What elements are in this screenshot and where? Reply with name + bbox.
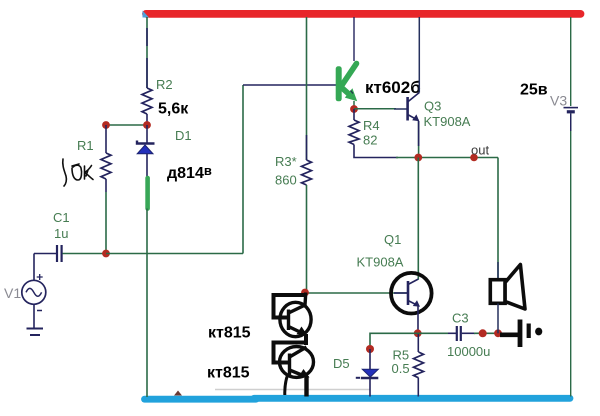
transistor VT1 marker collector stroke: [341, 64, 357, 87]
svg-text:KT908A: KT908A: [357, 255, 404, 270]
resistor R4 top lead: [353, 109, 355, 120]
resistor R2: [142, 88, 152, 114]
svg-text:25в: 25в: [520, 82, 548, 99]
handwritten value 10k: [63, 159, 93, 186]
speaker box: [490, 280, 505, 304]
svg-text:D5: D5: [333, 356, 350, 371]
node dot VT1 emitter / R4 / Q3 base: [350, 105, 358, 113]
zener diode D1 triangle: [137, 145, 153, 154]
plus mark: [37, 274, 43, 280]
transistor VB circle: [280, 347, 314, 378]
transistor VB collector: [290, 347, 307, 357]
capacitor C1 plates: [56, 245, 58, 262]
capacitor C1 left wire: [34, 253, 56, 255]
wire VA emitter to VB: [304, 334, 308, 345]
wire rail to R3: [306, 17, 308, 160]
wire Q3 emitter down: [418, 121, 420, 158]
Q1 collector diagonal: [408, 279, 418, 285]
svg-text:д814в: д814в: [167, 163, 212, 182]
battery V3 short plate: [567, 110, 575, 113]
zener diode D1 cathode bar: [137, 141, 155, 144]
diode D5 triangle: [362, 369, 378, 377]
svg-text:R2: R2: [156, 77, 173, 92]
wire D1 to ground rail: [146, 209, 148, 398]
svg-text:кт602б: кт602б: [365, 78, 421, 97]
hand-drawn ground bar 2: [527, 324, 531, 339]
svg-text:82: 82: [363, 133, 377, 148]
transistor VA emitter arrowhead: [297, 327, 308, 336]
wire C3 to speaker node: [474, 332, 498, 334]
ground rail (blue) main segment: [254, 395, 570, 402]
wire base riser: [242, 85, 244, 254]
svg-text:0.5: 0.5: [392, 361, 410, 376]
wire VT1 emitter to node: [353, 101, 355, 109]
wire R1 top lead: [105, 125, 107, 153]
wire rail to Q3 collector: [418, 17, 420, 93]
wire R5 to ground rail: [417, 378, 419, 397]
svg-text:KT908A: KT908A: [424, 114, 471, 129]
wire D1 bottom: [146, 154, 148, 178]
node dot out: [470, 154, 478, 162]
transistor VA collector: [289, 293, 306, 314]
transistor VT1 marker bar: [336, 66, 342, 101]
node dot base chain: [301, 289, 309, 297]
transistor VT1 marker emitter stroke: [342, 88, 351, 96]
wire node to D1: [146, 125, 148, 143]
wire node row y125: [106, 124, 147, 126]
battery V3 bottom wire: [570, 113, 572, 396]
wire input node to base corner: [106, 253, 243, 255]
transistor VA (kt815 top) bracket: [274, 295, 307, 318]
wire VB emitter to ground rail: [304, 376, 308, 397]
node dot D5: [366, 345, 374, 353]
svg-text:кт815: кт815: [208, 325, 251, 342]
svg-text:1u: 1u: [54, 226, 68, 241]
transistor VB bar: [288, 354, 291, 376]
svg-text:R1: R1: [77, 138, 94, 153]
D5 minus tick: [356, 377, 360, 379]
wire base node to Q1 base: [307, 292, 408, 294]
node dot Q3 emitter row: [414, 154, 422, 162]
svg-text:C3: C3: [452, 311, 469, 326]
speaker horn: [505, 265, 525, 310]
V1 ground symbol: [27, 328, 44, 330]
transistor VB circle tail: [285, 376, 288, 396]
transistor Q1 collector wire: [417, 158, 419, 280]
diode D5 cathode bar: [361, 377, 379, 380]
source V1 top wire: [33, 254, 35, 281]
hand-drawn ground arm: [500, 332, 518, 337]
wire emitter row to D5 corner: [370, 333, 418, 347]
svg-text:Q1: Q1: [384, 232, 401, 247]
wire R1 bottom: [105, 179, 107, 192]
transistor VA circle: [280, 302, 311, 336]
ground rail (blue) left segment: [145, 396, 257, 403]
Q3 emitter arrowhead: [412, 114, 419, 121]
rail left blue tip: [143, 11, 150, 18]
wire C1 to input node: [63, 253, 107, 255]
transistor Q3 bar: [406, 97, 409, 121]
wire D5 to ground rail: [369, 378, 371, 397]
resistor R3: [302, 160, 312, 185]
svg-text:R4: R4: [363, 118, 380, 133]
faint eraser line above ground rail: [215, 389, 370, 391]
svg-text:D1: D1: [175, 128, 192, 143]
svg-text:V3: V3: [550, 93, 567, 109]
node dot B: [143, 121, 151, 129]
wire speaker bottom: [497, 304, 499, 334]
remnant tick in arrow: [351, 91, 354, 94]
svg-text:860: 860: [275, 173, 297, 188]
resistor R5 lead: [417, 333, 419, 352]
V1 bottom wire: [33, 304, 35, 328]
wire R3 bottom to base node: [306, 185, 308, 293]
stray mark near rail: [174, 391, 182, 396]
wire rail to green transistor collector: [353, 17, 355, 61]
svg-text:V1: V1: [4, 285, 21, 301]
battery V3 wire from rail: [570, 17, 572, 106]
transistor Q1 circle: [391, 273, 432, 314]
node dot Q1 emitter: [414, 329, 422, 337]
capacitor C3 plates: [456, 326, 458, 341]
wire rail to R2: [146, 17, 148, 88]
green marker stroke over D1 wire: [145, 178, 150, 209]
capacitor C3 right wire: [462, 332, 475, 334]
Q1 emitter diagonal: [408, 301, 419, 307]
power rail VCC (red): [146, 10, 581, 18]
svg-text:out: out: [471, 143, 489, 158]
sine symbol: [26, 288, 42, 296]
wire out corner to speaker: [497, 158, 499, 281]
transistor VA bar: [287, 310, 290, 331]
transistor VT1 marker arrowhead: [345, 88, 357, 101]
svg-text:Q3: Q3: [424, 99, 441, 114]
wire Q1 emitter down: [417, 307, 419, 334]
Q3 collector diagonal: [408, 93, 420, 103]
wire R2 bottom to node: [146, 114, 148, 125]
resistor R5: [414, 352, 424, 378]
lead overlay R3 top: [306, 135, 308, 160]
hand-drawn ground dot: [535, 328, 542, 336]
lead overlay R2 top: [146, 28, 148, 46]
transistor VB emitter: [290, 370, 304, 376]
wire R4 row to out node: [396, 157, 498, 159]
svg-text:5,6к: 5,6к: [158, 101, 189, 118]
wire R1 to input node: [105, 192, 107, 254]
wire node to Q3 base: [354, 108, 396, 110]
wire D5 lead: [369, 349, 371, 369]
Q3 emitter diagonal: [408, 115, 419, 121]
node dot C3: [479, 329, 487, 337]
minus mark: [37, 310, 42, 312]
Q1 emitter arrowhead: [413, 300, 420, 307]
wire R4 bottom corner: [354, 145, 398, 158]
svg-text:кт815: кт815: [207, 365, 250, 382]
resistor R4: [349, 120, 359, 145]
capacitor C3 left wire: [418, 332, 448, 334]
node dot speaker: [494, 329, 502, 337]
svg-text:C1: C1: [53, 210, 70, 225]
input node dot: [102, 250, 110, 258]
node dot A: [102, 121, 110, 129]
source V1 circle: [22, 280, 46, 304]
transistor VA emitter: [289, 327, 302, 333]
resistor R1: [101, 153, 111, 179]
wire base feed to green transistor: [243, 84, 336, 86]
battery V3 long plate: [564, 107, 579, 109]
svg-text:R3*: R3*: [275, 154, 297, 169]
transistor VB emitter arrowhead: [299, 369, 310, 378]
transistor Q1 bar: [407, 281, 410, 305]
hand-drawn ground bar 1: [518, 320, 523, 348]
svg-text:10000u: 10000u: [447, 344, 490, 359]
transistor VB (kt815 bottom) bracket: [274, 343, 307, 363]
